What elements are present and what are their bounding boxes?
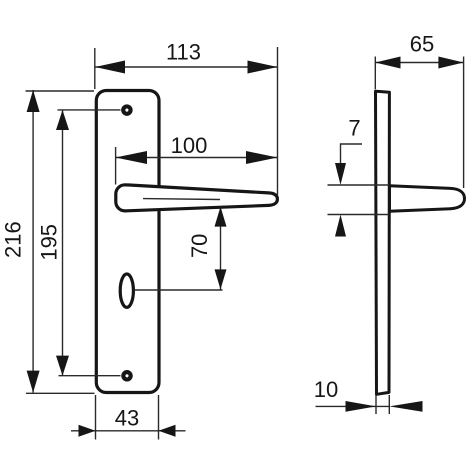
svg-text:100: 100 <box>171 133 208 158</box>
handle crease line <box>143 198 220 201</box>
dim 195 arrow bottom <box>56 356 69 376</box>
side view plate <box>376 91 390 394</box>
dim 7 leader <box>341 144 363 163</box>
dim 43 line with tails <box>71 430 186 432</box>
dim 216 extension line top <box>26 90 95 92</box>
dim 216 line <box>32 90 34 393</box>
top screw hole <box>123 106 130 113</box>
dim 10 arrow right <box>389 401 422 412</box>
dim 7 arrow down <box>335 163 346 185</box>
dim 43 arrow left <box>79 425 96 437</box>
dim 195 line <box>62 110 64 376</box>
dim 65 extension line right <box>463 57 465 189</box>
dim 10 arrow left <box>346 401 377 412</box>
dim 100 arrow left <box>116 151 148 164</box>
dim 113/100 extension line right <box>277 47 279 195</box>
dim 100 arrow right <box>246 151 278 164</box>
bottom screw hole <box>123 372 130 379</box>
dim 65 arrow right <box>438 57 463 69</box>
dim 113 extension line left <box>94 48 96 89</box>
dim 100 line <box>116 157 278 159</box>
dim 113 arrow left <box>95 61 125 74</box>
dim 216 arrow top <box>27 90 40 112</box>
side view handle <box>390 186 465 212</box>
svg-text:195: 195 <box>36 224 61 261</box>
svg-text:43: 43 <box>115 405 139 430</box>
dim 70 line <box>220 207 222 290</box>
dim 65 arrow left <box>375 57 400 69</box>
dim 7 object line bottom <box>328 214 390 216</box>
dim 70 arrow bottom <box>215 269 227 289</box>
dim 100 extension line left <box>115 147 117 185</box>
dim 10 extension line left <box>375 395 377 414</box>
dim 65 line <box>375 62 463 64</box>
handle front view <box>116 185 278 211</box>
dim 70 leader from oval <box>135 289 223 291</box>
dim 43 extension line left <box>95 395 97 440</box>
dim 43 extension line right <box>158 395 160 440</box>
svg-text:70: 70 <box>187 234 212 258</box>
dim 113 line <box>95 66 278 68</box>
dim 7 arrow up <box>335 215 346 237</box>
plate front view <box>96 91 159 393</box>
dim 10 line tail <box>316 405 390 407</box>
svg-text:10: 10 <box>314 377 338 402</box>
dim 195 extension line bottom <box>59 375 121 377</box>
dim 7 object line top <box>328 184 390 186</box>
svg-text:7: 7 <box>348 116 360 141</box>
dim 195 extension line top <box>58 109 121 111</box>
keyhole oval <box>120 274 133 307</box>
dim 216 extension line bottom <box>26 392 95 394</box>
dim 10 extension line right <box>388 395 390 414</box>
svg-text:216: 216 <box>1 221 26 258</box>
svg-text:65: 65 <box>410 32 434 57</box>
dim 65 extension line left <box>374 57 376 90</box>
dim 216 arrow bottom <box>27 371 40 393</box>
dim 70 arrow top <box>215 207 227 227</box>
dim 113 arrow right <box>248 61 278 74</box>
svg-text:113: 113 <box>166 40 201 65</box>
dim 43 arrow right <box>159 425 176 437</box>
dim 195 arrow top <box>56 110 69 130</box>
